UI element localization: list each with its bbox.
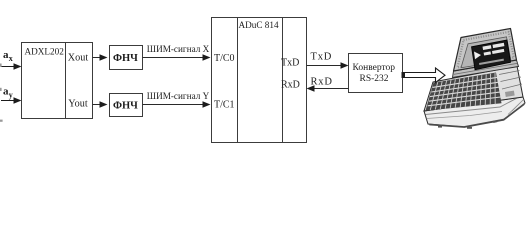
- trackball: [505, 91, 515, 97]
- lid bezel hatching: [458, 32, 515, 68]
- keyboard row gaps: [428, 77, 501, 105]
- keyboard dark field: [426, 73, 502, 111]
- svg-text:y: y: [9, 91, 13, 100]
- ADXL202 internal divider line: [65, 43, 67, 119]
- input ax arrow: [1, 63, 22, 70]
- svg-text:RxD: RxD: [311, 77, 333, 88]
- ADuC 814 internal divider line 2: [282, 18, 284, 143]
- svg-text:T/C0: T/C0: [214, 53, 235, 64]
- svg-text:TxD: TxD: [281, 58, 299, 69]
- laptop foot left: [438, 126, 442, 128]
- input ax label: [3, 49, 13, 63]
- svg-text:Yout: Yout: [68, 98, 88, 109]
- svg-text:TxD: TxD: [311, 52, 333, 63]
- notebook PC clipart: [424, 29, 525, 129]
- lid inner bezel line: [461, 37, 511, 68]
- ADuC 814 internal divider line 1: [237, 18, 239, 143]
- low-pass filter block lower: [110, 94, 143, 117]
- wire Xout to upper filter: [93, 54, 108, 61]
- palm rest right panel: [499, 71, 522, 90]
- wire PWM X to ADuC: [143, 54, 211, 61]
- svg-text:ШИМ-сигнал X: ШИМ-сигнал X: [147, 44, 210, 54]
- svg-text:x: x: [9, 54, 13, 63]
- svg-text:Конвертор: Конвертор: [353, 63, 396, 73]
- screen display: [472, 40, 511, 70]
- low-pass filter block upper: [110, 46, 143, 70]
- laptop skirt seam line 2: [427, 112, 503, 119]
- laptop hinge: [453, 60, 519, 78]
- converter block RS-232: [349, 54, 403, 93]
- svg-text:RS-232: RS-232: [360, 74, 389, 84]
- wire TxD to converter: [307, 62, 349, 69]
- laptop base skirt: [424, 97, 525, 127]
- screen logo text rows: [483, 43, 505, 56]
- block arrow converter to PC: [402, 68, 446, 83]
- laptop foot right: [493, 120, 497, 123]
- laptop skirt seam line: [426, 96, 523, 115]
- scan artifact marks at left edge: [0, 64, 3, 122]
- laptop lid: [454, 29, 517, 72]
- microcontroller block ADuC 814: [212, 18, 307, 143]
- accelerometer block ADXL202: [22, 43, 93, 119]
- input ay label: [3, 86, 13, 100]
- laptop foot mid: [467, 127, 472, 129]
- svg-text:ADuC 814: ADuC 814: [239, 20, 279, 30]
- hinge detail line: [454, 63, 518, 74]
- screen bottom status row: [479, 59, 504, 65]
- input ay arrow: [1, 97, 22, 104]
- svg-text:ФНЧ: ФНЧ: [113, 53, 138, 64]
- laptop deck: [424, 66, 523, 111]
- svg-text:ФНЧ: ФНЧ: [113, 100, 138, 111]
- svg-text:RxD: RxD: [281, 80, 300, 91]
- svg-text:ШИМ-сигнал Y: ШИМ-сигнал Y: [147, 91, 210, 101]
- laptop bottom dark band: [429, 103, 525, 128]
- wire RxD from converter: [307, 85, 349, 92]
- wire PWM Y to ADuC: [143, 101, 211, 108]
- wire Yout to lower filter: [93, 101, 108, 108]
- keyboard column gaps: [430, 73, 495, 110]
- svg-text:ADXL202: ADXL202: [25, 47, 65, 57]
- svg-text:T/C1: T/C1: [214, 100, 235, 111]
- base right side stripes: [508, 100, 523, 115]
- screen logo triangle: [474, 52, 481, 60]
- svg-text:Xout: Xout: [68, 52, 89, 63]
